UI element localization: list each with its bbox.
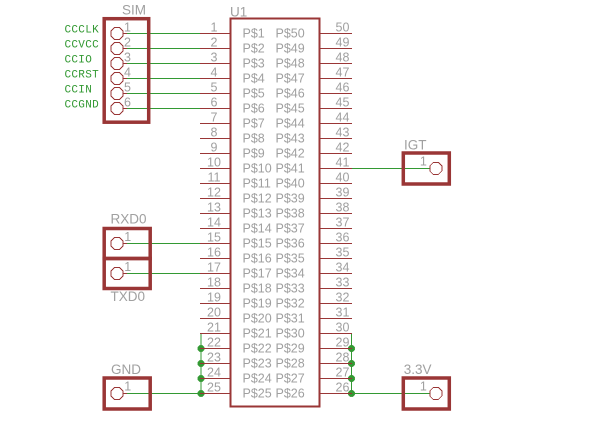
svg-text:6: 6 <box>211 96 218 110</box>
svg-text:35: 35 <box>336 246 350 260</box>
wire net 3.3V vertical <box>351 334 353 394</box>
pin 46 of U1 <box>320 81 352 95</box>
svg-text:39: 39 <box>336 186 350 200</box>
svg-text:CCRST: CCRST <box>65 70 100 82</box>
pin name P$35 <box>276 252 305 266</box>
pin name P$9 <box>243 147 265 161</box>
pin name P$41 <box>276 162 305 176</box>
pin name P$26 <box>276 387 305 401</box>
svg-text:50: 50 <box>336 21 350 35</box>
pin name P$3 <box>243 57 265 71</box>
pin name P$31 <box>276 312 305 326</box>
pin 36 of U1 <box>320 231 352 245</box>
pin name P$5 <box>243 87 265 101</box>
pin 44 of U1 <box>320 111 352 125</box>
pin name P$42 <box>276 147 305 161</box>
wire net CC pin 2 <box>124 48 201 50</box>
svg-text:P$39: P$39 <box>276 192 305 206</box>
pin name P$33 <box>276 282 305 296</box>
svg-text:P$17: P$17 <box>243 267 272 281</box>
wire net CC pin 6 <box>124 108 201 110</box>
pin name P$14 <box>243 222 272 236</box>
pin 21 of U1 <box>200 321 230 335</box>
svg-text:14: 14 <box>207 216 221 230</box>
pin name P$23 <box>243 357 272 371</box>
pin 33 of U1 <box>320 276 352 290</box>
pin 49 of U1 <box>320 36 352 50</box>
svg-text:P$50: P$50 <box>276 27 305 41</box>
svg-text:P$29: P$29 <box>276 342 305 356</box>
svg-text:CCIO: CCIO <box>65 55 93 67</box>
svg-text:SIM: SIM <box>122 3 146 18</box>
pin 50 of U1 <box>320 21 352 35</box>
svg-text:P$41: P$41 <box>276 162 305 176</box>
pin name P$32 <box>276 297 305 311</box>
svg-text:P$6: P$6 <box>243 102 265 116</box>
svg-text:7: 7 <box>211 111 218 125</box>
svg-text:1: 1 <box>124 230 131 244</box>
svg-text:P$31: P$31 <box>276 312 305 326</box>
pin name P$34 <box>276 267 305 281</box>
svg-text:23: 23 <box>207 351 221 365</box>
pin name P$21 <box>243 327 272 341</box>
svg-text:43: 43 <box>336 126 350 140</box>
pin name P$7 <box>243 117 265 131</box>
pin 25 of U1 <box>200 381 230 395</box>
pin name P$37 <box>276 222 305 236</box>
junction GND pin 24 <box>198 375 205 382</box>
svg-text:30: 30 <box>336 321 350 335</box>
svg-text:P$5: P$5 <box>243 87 265 101</box>
svg-text:P$32: P$32 <box>276 297 305 311</box>
connector 3.3V box <box>403 378 449 409</box>
pin 28 of U1 <box>320 351 352 365</box>
junction 3.3V pin 29 <box>348 345 355 352</box>
junction 3.3V pin 28 <box>348 360 355 367</box>
pin 41 of U1 <box>320 156 352 170</box>
svg-text:P$28: P$28 <box>276 357 305 371</box>
svg-text:P$18: P$18 <box>243 282 272 296</box>
svg-text:P$20: P$20 <box>243 312 272 326</box>
svg-text:20: 20 <box>207 306 221 320</box>
svg-text:P$27: P$27 <box>276 372 305 386</box>
svg-text:2: 2 <box>124 36 131 50</box>
wire net CC pin 3 <box>124 63 201 65</box>
svg-text:16: 16 <box>207 246 221 260</box>
svg-text:P$16: P$16 <box>243 252 272 266</box>
svg-text:P$33: P$33 <box>276 282 305 296</box>
pin 27 of U1 <box>320 366 352 380</box>
svg-text:47: 47 <box>336 66 350 80</box>
pad 1 of IGT <box>420 155 442 175</box>
svg-text:38: 38 <box>336 201 350 215</box>
pin name P$44 <box>276 117 305 131</box>
pin 30 of U1 <box>320 321 352 335</box>
pin name P$25 <box>243 387 272 401</box>
svg-text:P$22: P$22 <box>243 342 272 356</box>
net label CCIN <box>65 85 93 97</box>
svg-text:2: 2 <box>211 36 218 50</box>
pin 40 of U1 <box>320 171 352 185</box>
label GND <box>111 362 141 377</box>
pin 19 of U1 <box>200 291 230 305</box>
label 3.3V <box>404 362 432 377</box>
pin name P$43 <box>276 132 305 146</box>
pin 13 of U1 <box>200 201 230 215</box>
pad 1 of TXD0 <box>111 260 131 280</box>
pad 4 of SIM <box>111 66 131 85</box>
svg-text:1: 1 <box>124 21 131 35</box>
pin name P$24 <box>243 372 272 386</box>
wire net CC pin 4 <box>124 78 201 80</box>
svg-text:1: 1 <box>124 380 131 394</box>
pin name P$18 <box>243 282 272 296</box>
svg-text:P$26: P$26 <box>276 387 305 401</box>
wire net GND vertical <box>200 334 202 394</box>
pin 39 of U1 <box>320 186 352 200</box>
pad 2 of SIM <box>111 36 131 55</box>
svg-text:9: 9 <box>211 141 218 155</box>
pin 37 of U1 <box>320 216 352 230</box>
svg-text:CCGND: CCGND <box>65 100 100 112</box>
pin 34 of U1 <box>320 261 352 275</box>
svg-text:1: 1 <box>420 380 427 394</box>
svg-text:P$49: P$49 <box>276 42 305 56</box>
junction GND pin 23 <box>198 360 205 367</box>
op-amp U1 box <box>231 19 320 407</box>
svg-text:P$4: P$4 <box>243 72 265 86</box>
svg-text:11: 11 <box>208 171 221 185</box>
junction GND pin 22 <box>198 345 205 352</box>
pin name P$50 <box>276 27 305 41</box>
svg-text:22: 22 <box>207 336 221 350</box>
svg-text:33: 33 <box>336 276 350 290</box>
pin 47 of U1 <box>320 66 352 80</box>
label TXD0 <box>111 289 146 304</box>
svg-text:P$30: P$30 <box>276 327 305 341</box>
junction GND pin 25 <box>198 390 205 397</box>
svg-text:12: 12 <box>207 186 221 200</box>
pin name P$29 <box>276 342 305 356</box>
pin 23 of U1 <box>200 351 230 365</box>
pin 8 of U1 <box>200 126 230 140</box>
svg-text:34: 34 <box>336 261 350 275</box>
svg-text:36: 36 <box>336 231 350 245</box>
svg-text:P$7: P$7 <box>243 117 265 131</box>
svg-text:U1: U1 <box>230 5 247 20</box>
svg-text:10: 10 <box>207 156 221 170</box>
svg-text:P$40: P$40 <box>276 177 305 191</box>
svg-text:P$14: P$14 <box>243 222 272 236</box>
svg-text:P$9: P$9 <box>243 147 265 161</box>
svg-text:46: 46 <box>336 81 350 95</box>
label SIM <box>122 3 146 18</box>
svg-text:IGT: IGT <box>404 138 427 153</box>
svg-text:CCVCC: CCVCC <box>65 40 100 52</box>
svg-text:44: 44 <box>336 111 350 125</box>
pin name P$46 <box>276 87 305 101</box>
svg-text:5: 5 <box>124 81 131 95</box>
connector IGT box <box>403 153 449 184</box>
pin 45 of U1 <box>320 96 352 110</box>
svg-text:41: 41 <box>336 156 350 170</box>
pin 6 of U1 <box>200 96 230 110</box>
svg-text:P$2: P$2 <box>243 42 265 56</box>
svg-text:P$11: P$11 <box>243 177 271 191</box>
svg-text:P$42: P$42 <box>276 147 305 161</box>
pin name P$47 <box>276 72 305 86</box>
wire net GND horizontal <box>124 393 202 395</box>
svg-text:5: 5 <box>211 81 218 95</box>
pad 6 of SIM <box>111 96 131 115</box>
svg-text:P$25: P$25 <box>243 387 272 401</box>
svg-text:6: 6 <box>124 96 131 110</box>
pin 32 of U1 <box>320 291 352 305</box>
pad 1 of GND <box>111 380 131 400</box>
net label CCRST <box>65 70 100 82</box>
svg-text:TXD0: TXD0 <box>111 289 146 304</box>
pin name P$13 <box>243 207 272 221</box>
pin name P$45 <box>276 102 305 116</box>
pin 1 of U1 <box>200 21 230 35</box>
pin name P$6 <box>243 102 265 116</box>
pin name P$20 <box>243 312 272 326</box>
svg-text:4: 4 <box>211 66 218 80</box>
pad 1 of 3.3V <box>420 380 442 400</box>
pin name P$2 <box>243 42 265 56</box>
pin 43 of U1 <box>320 126 352 140</box>
net label CCIO <box>65 55 93 67</box>
svg-text:24: 24 <box>207 366 221 380</box>
wire net RXD0 <box>124 243 201 245</box>
svg-text:3: 3 <box>124 51 131 65</box>
svg-text:P$34: P$34 <box>276 267 305 281</box>
pad 3 of SIM <box>111 51 131 70</box>
svg-text:29: 29 <box>336 336 350 350</box>
svg-text:P$35: P$35 <box>276 252 305 266</box>
svg-text:32: 32 <box>336 291 350 305</box>
pin name P$49 <box>276 42 305 56</box>
pin name P$38 <box>276 207 305 221</box>
pad 5 of SIM <box>111 81 131 100</box>
connector RXD0 box <box>104 229 150 259</box>
svg-text:P$21: P$21 <box>243 327 272 341</box>
svg-text:P$46: P$46 <box>276 87 305 101</box>
pin name P$15 <box>243 237 272 251</box>
pin 18 of U1 <box>200 276 230 290</box>
svg-text:P$44: P$44 <box>276 117 305 131</box>
svg-text:CCIN: CCIN <box>65 85 93 97</box>
svg-text:40: 40 <box>336 171 350 185</box>
pin 10 of U1 <box>200 156 230 170</box>
pin 4 of U1 <box>200 66 230 80</box>
pin 48 of U1 <box>320 51 352 65</box>
svg-text:P$23: P$23 <box>243 357 272 371</box>
svg-text:P$3: P$3 <box>243 57 265 71</box>
pin 31 of U1 <box>320 306 352 320</box>
pin 22 of U1 <box>200 336 230 350</box>
svg-text:21: 21 <box>207 321 221 335</box>
pin name P$22 <box>243 342 272 356</box>
pin 5 of U1 <box>200 81 230 95</box>
svg-text:8: 8 <box>211 126 218 140</box>
svg-text:1: 1 <box>124 260 131 274</box>
svg-text:CCCLK: CCCLK <box>65 25 100 37</box>
svg-text:P$8: P$8 <box>243 132 265 146</box>
wire net 3.3V horizontal <box>352 393 430 395</box>
connector TXD0 box <box>104 259 150 289</box>
svg-text:P$38: P$38 <box>276 207 305 221</box>
pin 17 of U1 <box>200 261 230 275</box>
svg-text:25: 25 <box>207 381 221 395</box>
svg-text:18: 18 <box>207 276 221 290</box>
pin name P$12 <box>243 192 272 206</box>
svg-text:P$13: P$13 <box>243 207 272 221</box>
svg-text:P$47: P$47 <box>276 72 305 86</box>
pin 38 of U1 <box>320 201 352 215</box>
svg-text:GND: GND <box>111 362 141 377</box>
svg-text:RXD0: RXD0 <box>111 212 147 227</box>
svg-text:3.3V: 3.3V <box>404 362 432 377</box>
pin name P$4 <box>243 72 265 86</box>
pin name P$39 <box>276 192 305 206</box>
junction 3.3V pin 26 <box>348 390 355 397</box>
label IGT <box>404 138 427 153</box>
svg-text:P$36: P$36 <box>276 237 305 251</box>
pin name P$40 <box>276 177 305 191</box>
pin 9 of U1 <box>200 141 230 155</box>
pin name P$36 <box>276 237 305 251</box>
connector GND box <box>104 378 150 409</box>
pin name P$8 <box>243 132 265 146</box>
pin 35 of U1 <box>320 246 352 260</box>
svg-text:28: 28 <box>336 351 350 365</box>
label RXD0 <box>111 212 147 227</box>
svg-text:45: 45 <box>336 96 350 110</box>
connector SIM box <box>104 19 149 123</box>
svg-text:P$12: P$12 <box>243 192 272 206</box>
svg-text:1: 1 <box>420 155 427 169</box>
net label CCGND <box>65 100 100 112</box>
svg-text:3: 3 <box>211 51 218 65</box>
svg-text:48: 48 <box>336 51 350 65</box>
svg-text:P$15: P$15 <box>243 237 272 251</box>
pin name P$27 <box>276 372 305 386</box>
pad 1 of RXD0 <box>111 230 131 250</box>
junction 3.3V pin 27 <box>348 375 355 382</box>
wire net IGT <box>352 168 430 170</box>
pin 15 of U1 <box>200 231 230 245</box>
pin 26 of U1 <box>320 381 352 395</box>
svg-text:13: 13 <box>207 201 221 215</box>
svg-text:37: 37 <box>336 216 350 230</box>
net label CCVCC <box>65 40 100 52</box>
pin name P$30 <box>276 327 305 341</box>
pin 16 of U1 <box>200 246 230 260</box>
svg-text:P$19: P$19 <box>243 297 272 311</box>
svg-text:17: 17 <box>207 261 221 275</box>
svg-text:P$45: P$45 <box>276 102 305 116</box>
pin name P$19 <box>243 297 272 311</box>
svg-text:42: 42 <box>336 141 350 155</box>
pin 2 of U1 <box>200 36 230 50</box>
svg-text:4: 4 <box>124 66 131 80</box>
svg-text:26: 26 <box>336 381 350 395</box>
pin name P$17 <box>243 267 272 281</box>
svg-text:P$1: P$1 <box>243 27 265 41</box>
pin 24 of U1 <box>200 366 230 380</box>
pin 42 of U1 <box>320 141 352 155</box>
svg-text:49: 49 <box>336 36 350 50</box>
svg-text:P$48: P$48 <box>276 57 305 71</box>
label U1 <box>230 5 247 20</box>
wire net CC pin 1 <box>124 33 201 35</box>
pin name P$28 <box>276 357 305 371</box>
svg-text:19: 19 <box>207 291 221 305</box>
pin name P$48 <box>276 57 305 71</box>
wire net TXD0 <box>124 273 201 275</box>
pin 20 of U1 <box>200 306 230 320</box>
svg-text:P$37: P$37 <box>276 222 305 236</box>
pin 29 of U1 <box>320 336 352 350</box>
pin name P$16 <box>243 252 272 266</box>
pin 7 of U1 <box>200 111 230 125</box>
svg-text:1: 1 <box>211 21 218 35</box>
pin 11 of U1 <box>200 171 230 185</box>
pin 12 of U1 <box>200 186 230 200</box>
pin name P$1 <box>243 27 265 41</box>
wire net CC pin 5 <box>124 93 201 95</box>
svg-text:P$43: P$43 <box>276 132 305 146</box>
pin name P$11 <box>243 177 271 191</box>
net label CCCLK <box>65 25 100 37</box>
svg-text:15: 15 <box>207 231 221 245</box>
pin 14 of U1 <box>200 216 230 230</box>
pin 3 of U1 <box>200 51 230 65</box>
pad 1 of SIM <box>111 21 131 40</box>
svg-text:P$10: P$10 <box>243 162 272 176</box>
pin name P$10 <box>243 162 272 176</box>
svg-text:31: 31 <box>336 306 350 320</box>
svg-text:27: 27 <box>336 366 350 380</box>
svg-text:P$24: P$24 <box>243 372 272 386</box>
